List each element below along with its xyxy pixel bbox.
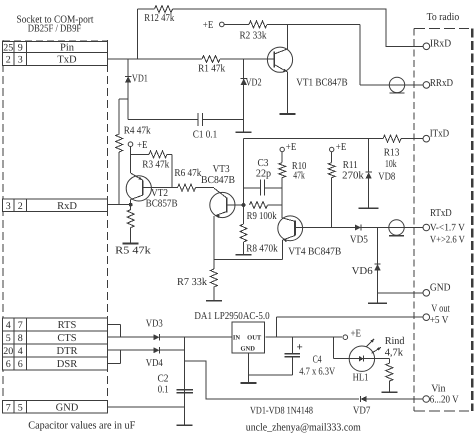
wire R4 tap from VD1 line (119, 99, 128, 134)
terminal GND (423, 283, 451, 296)
svg-text:+E: +E (336, 142, 347, 153)
svg-text:IN: IN (233, 334, 241, 341)
capacitor C1 (128, 113, 244, 141)
svg-text:VD7: VD7 (353, 405, 371, 416)
svg-text:GND: GND (56, 402, 79, 413)
wire VT4 emitter down (281, 240, 283, 260)
resistor R11 (328, 152, 364, 228)
capacitor C2 (158, 374, 194, 396)
svg-text:R11: R11 (343, 160, 358, 171)
svg-text:+E: +E (203, 20, 214, 31)
terminal ITxD (423, 129, 450, 142)
svg-text:Pin: Pin (60, 43, 75, 54)
svg-text:HL1: HL1 (353, 373, 369, 384)
terminal +E source (343, 329, 361, 340)
svg-text:VD6: VD6 (352, 266, 373, 277)
diode VD3 (146, 319, 163, 341)
wire GND terminal (378, 292, 424, 294)
svg-text:R9 100k: R9 100k (247, 211, 278, 222)
connector pin row RxD (3, 199, 108, 212)
svg-text:2: 2 (6, 55, 11, 66)
resistor R8 (240, 205, 278, 255)
jack symbol RTxD (389, 220, 404, 236)
ground C2 (177, 424, 193, 426)
svg-text:uncle_zhenya@mail333.com: uncle_zhenya@mail333.com (246, 422, 362, 434)
svg-text:4: 4 (18, 346, 23, 357)
svg-text:CTS: CTS (57, 333, 76, 344)
wire DA1 OUT rail (265, 336, 342, 338)
wire +E to VT2 emitter and R3 (131, 147, 150, 174)
note email (246, 422, 362, 434)
LED HL1 (349, 339, 389, 384)
svg-text:R1 47k: R1 47k (198, 64, 226, 75)
terminal IRxD (423, 39, 451, 50)
wire VT2 base to R6 (143, 187, 178, 189)
svg-text:C2: C2 (158, 374, 169, 385)
connector pin row CTS (3, 331, 108, 344)
svg-text:8: 8 (18, 333, 23, 344)
wire junction up to ITxD rail (243, 139, 245, 205)
svg-text:9: 9 (18, 43, 23, 54)
resistor R9 (247, 202, 283, 223)
wire HL1 drop (333, 337, 349, 359)
wire ITxD rail (244, 138, 384, 140)
diode VD8 (365, 139, 395, 209)
wire R2 to RRxD corner (267, 24, 423, 85)
diode VD6 (352, 228, 381, 304)
wire R3 to base rail (167, 154, 172, 187)
wire VD4 to C2 line (160, 349, 185, 351)
svg-text:BC857B: BC857B (146, 198, 178, 209)
svg-text:R5 47k: R5 47k (115, 246, 151, 257)
wire VT4 collector up (281, 205, 283, 218)
wire CTS VD3 rail (107, 336, 154, 338)
resistor Rind 4.7k (385, 336, 406, 392)
svg-text:VD8: VD8 (378, 172, 395, 183)
svg-text:DA1 LP2950AC-5.0: DA1 LP2950AC-5.0 (194, 311, 269, 322)
terminal RTxD (423, 208, 465, 245)
svg-text:+E: +E (286, 142, 297, 153)
svg-text:BC847B: BC847B (201, 175, 235, 186)
svg-text:7: 7 (18, 320, 23, 331)
diode VD7 (353, 396, 371, 417)
To radio label (427, 12, 460, 23)
ground R8 (236, 254, 252, 256)
svg-text:+5 V: +5 V (430, 315, 449, 326)
svg-text:22p: 22p (256, 169, 271, 180)
svg-text:6...20 V: 6...20 V (430, 394, 459, 405)
transistor VT3 BC847B (201, 164, 235, 218)
diode VD4 (146, 347, 164, 369)
transistor VT2 BC857B (126, 173, 177, 209)
svg-text:C4: C4 (313, 355, 323, 366)
wire VD5 to RTxD terminal (362, 227, 424, 229)
wire VT1 collector (287, 24, 289, 49)
svg-text:GND: GND (240, 345, 255, 352)
connector pin row DSR (3, 357, 108, 370)
wire Vout riser (277, 317, 424, 337)
svg-text:3: 3 (6, 201, 11, 212)
connector pin row Pin (3, 42, 108, 54)
svg-text:R4 47k: R4 47k (124, 126, 152, 137)
svg-text:6: 6 (18, 359, 23, 370)
ground Rind (381, 391, 397, 393)
svg-text:C1 0.1: C1 0.1 (193, 130, 218, 141)
connector pin row TxD (3, 53, 108, 66)
wire C4 to DA1 ground (249, 353, 293, 383)
wire GND row rail (107, 406, 185, 408)
wire DTR VD4 rail (107, 349, 154, 351)
ground VT1 emitter (280, 113, 296, 115)
ground R7 (206, 300, 222, 302)
svg-text:R6 47k: R6 47k (174, 168, 202, 179)
svg-text:Rind: Rind (385, 336, 406, 347)
IC DA1 LP2950AC-5.0 (194, 311, 269, 353)
capacitor C4 (285, 337, 336, 377)
terminal +E top (203, 20, 224, 31)
svg-text:270k: 270k (342, 171, 364, 182)
svg-text:DB25F / DB9F: DB25F / DB9F (28, 24, 82, 35)
svg-text:10k: 10k (385, 159, 397, 170)
wire RxD row to VT2 collector (108, 200, 131, 205)
svg-text:GND: GND (430, 283, 451, 294)
resistor R6 (174, 168, 202, 191)
ground VD6 (368, 302, 387, 304)
wire Vin branch (185, 361, 359, 399)
svg-text:RTxD: RTxD (430, 208, 452, 219)
resistor R1 (198, 56, 226, 75)
wire VD7 to Vin terminal (367, 398, 424, 400)
svg-text:VT1 BC847B: VT1 BC847B (296, 78, 347, 89)
svg-text:RxD: RxD (57, 201, 77, 212)
resistor R10 (279, 152, 307, 205)
connector pin row GND (3, 401, 108, 414)
node VT2 collector junction (129, 203, 133, 207)
svg-text:0.1: 0.1 (158, 385, 169, 396)
wire RTS jog (107, 324, 121, 337)
svg-text:R3 47k: R3 47k (142, 160, 170, 171)
To radio dashed outline (414, 28, 472, 411)
svg-text:25: 25 (3, 43, 13, 54)
wire R12 branch vertical (137, 9, 139, 59)
wire VT3 base to junction (227, 204, 244, 206)
ground DA1 C4 (241, 382, 257, 384)
svg-text:3: 3 (18, 55, 23, 66)
svg-text:5: 5 (18, 402, 23, 413)
svg-text:To radio: To radio (427, 12, 460, 23)
svg-text:R7 33k: R7 33k (177, 277, 208, 288)
svg-text:VD2: VD2 (246, 78, 262, 89)
note capacitor units (28, 419, 135, 431)
jack symbol RRxD (389, 77, 404, 93)
svg-text:ITxD: ITxD (430, 129, 450, 140)
connector title (17, 15, 94, 35)
diode VD2 (241, 59, 262, 120)
ground VD8 (359, 207, 379, 209)
connector pin row DTR (3, 344, 108, 357)
wire VT3 emitter down (213, 216, 215, 260)
terminal Vout (423, 303, 450, 326)
capacitor C3 (244, 158, 283, 196)
svg-text:Vin: Vin (431, 383, 446, 394)
svg-text:C3: C3 (258, 158, 269, 169)
svg-text:2: 2 (18, 201, 23, 212)
resistor R4 (116, 126, 152, 205)
svg-text:OUT: OUT (247, 334, 262, 341)
terminal +E R10 (280, 142, 296, 153)
wire R12 to IRxD (173, 9, 424, 46)
svg-text:5: 5 (6, 333, 11, 344)
svg-text:R12 47k: R12 47k (144, 13, 175, 24)
svg-text:R8 470k: R8 470k (246, 244, 278, 255)
svg-text:R13: R13 (384, 148, 400, 159)
wire VT1 emitter (287, 72, 289, 115)
svg-text:V out: V out (431, 303, 450, 314)
svg-text:Capacitor values are in uF: Capacitor values are in uF (28, 419, 135, 431)
svg-text:VD1: VD1 (132, 74, 148, 85)
svg-text:4: 4 (6, 320, 11, 331)
terminal +E R11 (330, 142, 347, 153)
svg-text:VT3: VT3 (213, 164, 230, 175)
svg-text:RTS: RTS (58, 320, 77, 331)
svg-text:20: 20 (3, 346, 13, 357)
svg-text:DTR: DTR (57, 346, 78, 357)
transistor VT4 BC847B (278, 216, 341, 258)
svg-text:+E: +E (137, 140, 148, 151)
svg-text:VT4 BC847B: VT4 BC847B (288, 247, 341, 258)
connector pin row RTS (3, 318, 108, 331)
svg-text:4.7 x 6.3V: 4.7 x 6.3V (299, 367, 335, 378)
ground C1 VD2 (236, 120, 252, 133)
svg-text:6: 6 (6, 359, 11, 370)
svg-text:DSR: DSR (57, 359, 77, 370)
svg-text:VD3: VD3 (146, 319, 163, 330)
svg-text:VD5: VD5 (350, 234, 368, 245)
transistor VT1 BC847B (267, 47, 347, 88)
terminal RRxD (423, 78, 453, 89)
svg-text:VD1-VD8 1N4148: VD1-VD8 1N4148 (250, 405, 313, 416)
wire VD1 to C1 rail (127, 99, 129, 120)
svg-text:R2 33k: R2 33k (240, 30, 268, 41)
wire VD3 to DA1 IN (160, 336, 232, 338)
note diode types (250, 405, 313, 416)
wire emitter rail (214, 259, 282, 261)
svg-text:RRxD: RRxD (430, 78, 453, 89)
wire VT4 base RTxD rail (295, 227, 355, 229)
terminal Vin (423, 383, 459, 405)
svg-text:VD4: VD4 (146, 358, 164, 369)
svg-text:4,7k: 4,7k (385, 348, 404, 359)
wire C2 vertical (184, 337, 186, 425)
svg-text:V+>2.6 V: V+>2.6 V (430, 235, 466, 246)
resistor R7 (177, 260, 217, 301)
diode VD1 (125, 59, 148, 99)
svg-text:+: + (297, 342, 303, 354)
resistor R2 (224, 21, 267, 41)
svg-text:47k: 47k (293, 171, 305, 182)
DB25/DB9 connector dashed outline (3, 40, 108, 400)
svg-text:IRxD: IRxD (430, 39, 452, 50)
svg-text:V-<1.7 V: V-<1.7 V (430, 222, 466, 233)
wire R6 to VT3 (196, 187, 215, 189)
resistor R5 (115, 205, 151, 257)
diode VD5 (350, 224, 368, 245)
wire DSR jog (107, 350, 121, 363)
wire TxD row to R1 and VT1 base (108, 58, 275, 60)
ground R5 (123, 243, 139, 245)
resistor R12 (138, 6, 175, 24)
terminal +E VT2 emitter (128, 140, 147, 151)
node R9 junction (242, 203, 246, 207)
svg-text:TxD: TxD (57, 55, 77, 66)
svg-text:+E: +E (351, 329, 362, 340)
resistor R13 (383, 135, 423, 170)
svg-text:7: 7 (6, 402, 11, 413)
resistor R3 (142, 151, 170, 171)
